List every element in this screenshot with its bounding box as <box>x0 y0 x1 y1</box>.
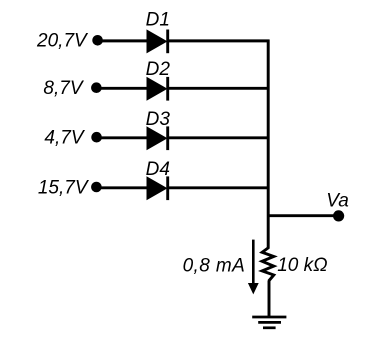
svg-text:0,8 mA: 0,8 mA <box>183 255 246 276</box>
svg-text:15,7V: 15,7V <box>38 177 90 198</box>
svg-text:D4: D4 <box>146 159 170 180</box>
svg-text:D1: D1 <box>146 9 170 30</box>
svg-text:10 kΩ: 10 kΩ <box>277 255 327 276</box>
svg-text:D3: D3 <box>146 109 171 130</box>
svg-text:Va: Va <box>326 190 349 211</box>
svg-text:8,7V: 8,7V <box>43 78 84 99</box>
svg-text:D2: D2 <box>146 59 171 80</box>
svg-text:4,7V: 4,7V <box>44 127 85 148</box>
svg-text:20,7V: 20,7V <box>36 31 89 52</box>
